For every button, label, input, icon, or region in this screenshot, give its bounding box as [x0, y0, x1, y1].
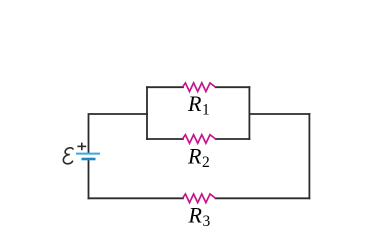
- wire top-left horizontal: [89, 114, 148, 153]
- svg-text:R: R: [188, 203, 203, 228]
- battery plus sign: [77, 143, 86, 151]
- wire parallel-box right edge: [248, 87, 250, 139]
- wire right horizontal: [249, 113, 309, 115]
- wire bottom branch right segment: [216, 138, 250, 140]
- wire top branch right segment: [216, 86, 250, 88]
- battery negative plate: [82, 158, 96, 161]
- label EMF script-E: [63, 148, 73, 164]
- wire top branch left segment: [147, 86, 183, 88]
- svg-text:2: 2: [202, 154, 210, 171]
- wire right vertical: [308, 114, 310, 198]
- wire parallel-box left edge: [146, 87, 148, 139]
- svg-text:R: R: [187, 143, 202, 168]
- svg-text:R: R: [187, 91, 202, 116]
- resistor R3: [183, 194, 216, 203]
- wire left vertical below battery: [88, 160, 90, 199]
- svg-text:1: 1: [202, 101, 210, 118]
- svg-text:3: 3: [203, 213, 211, 230]
- resistor R1: [183, 83, 216, 92]
- resistor R2: [183, 135, 216, 144]
- battery positive plate: [76, 153, 100, 155]
- wire bottom right segment: [216, 197, 310, 199]
- wire bottom branch left segment: [147, 138, 183, 140]
- wire bottom left segment: [89, 197, 184, 199]
